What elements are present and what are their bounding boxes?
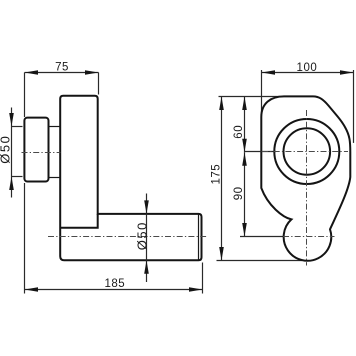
body internal step edge	[60, 214, 97, 228]
dim 185 right extension line	[202, 263, 204, 294]
reference line for 90 dim at small circle center	[240, 236, 292, 238]
vertical centerline	[306, 110, 308, 266]
front view body outline	[261, 96, 350, 260]
dim 175 dimension line	[221, 97, 223, 261]
pipe end cap line	[198, 214, 200, 259]
svg-text:100: 100	[297, 62, 318, 74]
dim 100 dimension line	[262, 72, 354, 74]
inlet pipe top edge	[49, 126, 61, 128]
body + outlet pipe outline	[60, 96, 201, 261]
dim 100 right extension line	[353, 70, 355, 143]
svg-text:Ø50: Ø50	[0, 135, 13, 164]
reference line from 60/90 dims to big circle center	[245, 151, 277, 153]
top extension line for 175/60 dims	[219, 96, 281, 98]
dim 90 dimension line	[244, 152, 246, 236]
big circle horizontal centerline	[262, 151, 348, 153]
inlet centerline	[22, 152, 61, 154]
dim 100 left extension line	[261, 70, 263, 117]
bottom extension line for 175 dim	[217, 260, 303, 262]
dim 185 dimension line	[25, 289, 203, 291]
inlet pipe bottom edge	[49, 177, 61, 179]
dim D50 inlet vertical dimension line	[11, 108, 13, 198]
svg-text:75: 75	[55, 62, 69, 74]
dim 60 dimension line	[244, 97, 246, 153]
svg-text:Ø50: Ø50	[134, 221, 149, 250]
svg-text:90: 90	[233, 187, 245, 201]
nut (inlet coupling nut)	[24, 118, 48, 182]
dim 185 left extension line	[24, 183, 26, 294]
outlet pipe centerline	[48, 236, 207, 238]
dim 75 right extension line	[98, 73, 100, 95]
dim 75 left extension line	[24, 73, 26, 118]
dim 75 top dimension line	[25, 72, 99, 74]
svg-text:175: 175	[211, 164, 223, 185]
big inner circle	[284, 128, 331, 175]
dim D50 outlet vertical dimension line	[146, 194, 148, 283]
dim D50 inlet top extension tick	[12, 126, 23, 128]
svg-text:185: 185	[104, 278, 125, 290]
svg-text:60: 60	[233, 125, 245, 139]
big outer circle	[274, 119, 339, 184]
small circle horizontal centerline	[283, 236, 335, 238]
dim D50 inlet bottom extension tick	[12, 176, 23, 178]
